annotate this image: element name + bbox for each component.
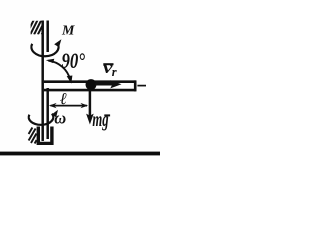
vertical shaft (axis of rotation), double line [43, 21, 48, 142]
ω arrowhead [52, 110, 59, 117]
moment M curved arrow around shaft [31, 44, 58, 57]
dimension line l [51, 105, 88, 107]
dimension right arrowhead [80, 103, 88, 108]
moment M arrowhead [54, 39, 61, 47]
weight vector mg line [89, 90, 92, 116]
overbar of g in label mg [104, 114, 110, 116]
tube right end cap [134, 80, 137, 91]
svg-text:ℓ: ℓ [60, 89, 67, 108]
svg-text:mg: mg [92, 109, 108, 131]
svg-text:r: r [112, 65, 117, 79]
bottom rule (figure separator) [0, 152, 160, 156]
horizontal tube (rod) bottom line [44, 89, 136, 92]
v_r arrowhead [110, 80, 121, 88]
svg-text:ω: ω [54, 109, 66, 128]
svg-text:M: M [61, 24, 75, 39]
overbar of label v_r [103, 63, 113, 65]
dimension left arrowhead [49, 103, 57, 108]
bearing hatching (bottom support) [29, 128, 37, 144]
horizontal tube (rod) top line [44, 80, 136, 83]
angular velocity ω curved arrow around shaft [29, 114, 54, 125]
90° angle arc between shaft and rod [48, 61, 70, 80]
90° arc upper arrowhead (points at shaft) [46, 59, 55, 63]
mg arrowhead [86, 114, 94, 125]
tube axis stub beyond end [137, 85, 146, 87]
slider mass (black dot) on tube [86, 79, 97, 90]
relative velocity vector v_r [95, 83, 113, 86]
svg-text:90°: 90° [62, 48, 86, 73]
90° arc lower arrowhead (points at rod) [67, 76, 73, 84]
bottom bearing cup [37, 127, 54, 146]
